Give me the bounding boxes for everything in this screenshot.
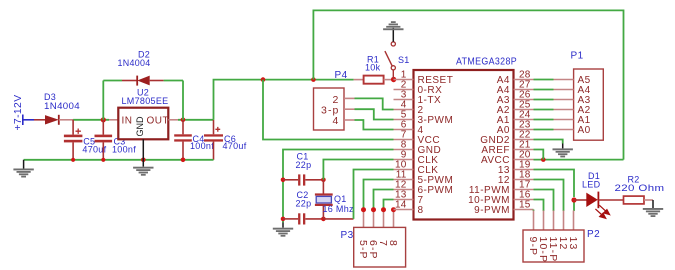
- svg-text:LM7805EE: LM7805EE: [122, 96, 169, 106]
- pin P2-1 stub: [533, 211, 535, 231]
- svg-text:LED: LED: [582, 180, 601, 190]
- label R2 220 Ohm: [615, 175, 665, 194]
- capacitor C3 100nf: [95, 120, 113, 160]
- pin P3-3 stub: [383, 210, 385, 228]
- pin P2-2 stub: [543, 211, 545, 231]
- junction XTAL1 node: [321, 178, 326, 183]
- svg-text:IN: IN: [122, 115, 133, 126]
- svg-text:P2: P2: [587, 229, 600, 240]
- pin P2-3 stub: [553, 211, 555, 231]
- svg-text:9-PWM: 9-PWM: [474, 205, 510, 216]
- label C5 470uf: [82, 136, 106, 154]
- pin P3-2 stub: [373, 210, 375, 228]
- pin P2-5 stub: [573, 211, 575, 231]
- ground GND2: [553, 144, 573, 158]
- svg-text:Q1: Q1: [334, 194, 347, 204]
- svg-text:470uf: 470uf: [223, 141, 247, 151]
- svg-text:100nf: 100nf: [112, 144, 136, 154]
- pin P2-4 stub: [563, 211, 565, 231]
- wire D13 below node: [573, 200, 575, 211]
- switch S1: [385, 42, 396, 79]
- wire A2 net: [534, 109, 554, 111]
- pin 6 D4 stub: [394, 120, 424, 136]
- crystal Q1 16 Mhz: [315, 180, 333, 219]
- svg-text:OUT: OUT: [147, 115, 170, 126]
- pin 17 11-PWM stub: [469, 180, 534, 196]
- connector P2: [523, 230, 584, 263]
- junction RESET node: [391, 77, 396, 82]
- svg-text:1N4004: 1N4004: [44, 101, 80, 111]
- svg-text:15: 15: [519, 200, 531, 211]
- wire Vin diode to regulator: [59, 119, 73, 121]
- label D3 1N4004: [44, 92, 80, 111]
- wire GND bottom rail: [24, 159, 214, 161]
- svg-text:10k: 10k: [365, 62, 381, 72]
- connector P4: [314, 88, 355, 130]
- label D2 1N4004: [118, 50, 151, 69]
- junction AREF-AVCC: [541, 157, 546, 162]
- label C2 22p: [296, 190, 312, 208]
- label C6 470uf: [223, 134, 247, 151]
- wire GND2: [534, 140, 563, 144]
- junction P3-3: [381, 207, 386, 212]
- wire pin 15 9-PWM to P2: [533, 210, 535, 212]
- svg-text:4: 4: [333, 115, 340, 127]
- node +7-12V supply terminal: [13, 95, 34, 131]
- pin 7 VCC stub: [394, 130, 441, 146]
- junction VCC-top bus branch: [311, 77, 316, 82]
- svg-text:100nf: 100nf: [190, 141, 214, 151]
- wire pin 16 10-PWM to P2: [534, 200, 544, 212]
- svg-text:A0: A0: [578, 125, 591, 136]
- wire P4-2 to pin 4: [355, 98, 394, 109]
- label D1 LED: [582, 171, 601, 190]
- pin 22 GND2 stub: [480, 130, 533, 146]
- wire P4-3p to pin 5: [355, 109, 394, 119]
- wire A5 net: [534, 79, 554, 81]
- wire XTAL2 to pin 10: [323, 218, 353, 220]
- svg-text:ATMEGA328P: ATMEGA328P: [456, 57, 517, 68]
- capacitor C1 22p: [283, 174, 323, 185]
- svg-text:13: 13: [567, 237, 579, 251]
- svg-text:P1: P1: [571, 51, 584, 62]
- pin 21 AREF stub: [481, 140, 533, 156]
- pin 25 A2 stub: [497, 100, 534, 116]
- capacitor C6 470uf: [204, 120, 223, 160]
- pin P3-1 stub: [363, 210, 365, 228]
- junction P3-1: [361, 207, 366, 212]
- wire VCC riser: [214, 80, 354, 120]
- ground C1 C2: [273, 223, 293, 237]
- svg-text:S1: S1: [398, 55, 410, 65]
- pin P3-4 stub: [393, 210, 395, 228]
- junction P3-4: [391, 207, 396, 212]
- svg-text:+7-12V: +7-12V: [13, 95, 24, 131]
- wire A0 net: [534, 129, 554, 131]
- svg-text:P3: P3: [341, 230, 354, 241]
- svg-text:220 Ohm: 220 Ohm: [615, 183, 665, 193]
- junction P3-2: [371, 207, 376, 212]
- capacitor C2 22p: [283, 213, 323, 224]
- pin 8 GND stub: [394, 140, 442, 156]
- connector P1: [554, 69, 604, 140]
- pin 14 D8 stub: [394, 200, 424, 216]
- junction GND-C4: [181, 158, 186, 163]
- wire U2 GND lead: [142, 139, 144, 166]
- svg-text:P4: P4: [335, 70, 348, 81]
- ground S1 top inverted: [383, 21, 403, 30]
- diode D3: [34, 115, 59, 125]
- pin 24 A1 stub: [497, 110, 534, 126]
- wire VCC to pin 7: [263, 80, 394, 140]
- pin 3 1-TX stub: [394, 90, 442, 106]
- pin 4 D2 stub: [394, 100, 424, 116]
- pin 13 D7 stub: [394, 190, 424, 206]
- pin 9 CLK stub: [394, 150, 439, 166]
- wire A4 net: [534, 89, 554, 91]
- wire Vout: [178, 119, 214, 121]
- pin 1 RESET stub: [394, 70, 454, 86]
- wire VCC top bus: [313, 10, 623, 159]
- junction GND-C5: [71, 158, 75, 162]
- pin 10 CLK stub: [394, 160, 439, 176]
- pin 15 9-PWM stub: [474, 200, 533, 216]
- resistor R2 220 Ohm: [624, 196, 654, 204]
- pin 20 AVCC stub: [481, 150, 534, 166]
- regulator U2 LM7805EE: [118, 108, 169, 140]
- pin 2 0-RX stub: [394, 80, 443, 96]
- svg-text:16 Mhz: 16 Mhz: [323, 204, 355, 214]
- pin 12 6-PWM stub: [394, 180, 454, 196]
- svg-text:14: 14: [395, 200, 407, 211]
- wire pin 19 D13 to LED node: [534, 170, 575, 198]
- junction GND-U2: [141, 158, 146, 163]
- junction GND-C1 left: [281, 178, 286, 183]
- wire pin 12 to P3: [374, 190, 394, 211]
- wire S1 to ground: [392, 28, 394, 42]
- svg-text:1N4004: 1N4004: [118, 58, 151, 68]
- label C4 100nf: [190, 134, 214, 151]
- pin 19 D13 stub: [498, 160, 534, 176]
- pin 5 3-PWM stub: [394, 110, 454, 126]
- label C1 22p: [296, 151, 312, 170]
- label C3 100nf: [112, 136, 136, 154]
- pin U2 OUT stub: [168, 119, 178, 121]
- wire XTAL1 to pin 9: [323, 160, 393, 180]
- wire pin 8 GND: [283, 150, 394, 223]
- capacitor C5 470uf: [64, 120, 83, 160]
- pin 18 D12 stub: [498, 170, 534, 186]
- wire P4-4 to pin 6: [355, 120, 394, 130]
- svg-text:GND: GND: [135, 116, 145, 137]
- pin 26 A3 stub: [497, 90, 534, 106]
- junction GND-C2 left: [281, 217, 286, 222]
- label Q1 16 Mhz: [323, 194, 355, 214]
- label U2 LM7805EE: [122, 88, 169, 107]
- resistor R1 10k: [364, 76, 394, 84]
- pin 16 10-PWM stub: [468, 190, 533, 206]
- label R1 10k: [365, 55, 381, 73]
- wire A1 net: [534, 119, 554, 121]
- connector P3: [354, 227, 406, 267]
- diode D2 bypass: [103, 76, 183, 120]
- wire AVCC: [534, 159, 624, 161]
- svg-text:8: 8: [418, 205, 424, 216]
- pin 11 5-PWM stub: [394, 170, 454, 186]
- wire A3 net: [534, 99, 554, 101]
- ground R2: [643, 200, 663, 217]
- diode D1 LED: [574, 192, 624, 219]
- wire pin 14 to P3: [393, 209, 395, 212]
- ground left: [13, 160, 33, 178]
- junction LED node: [571, 197, 576, 202]
- junction XTAL2 node: [321, 217, 326, 222]
- pin U2 IN stub: [109, 119, 118, 121]
- wire AREF: [534, 150, 544, 160]
- svg-text:22p: 22p: [296, 199, 312, 209]
- junction Vout-C4: [181, 118, 186, 123]
- junction GND-C3: [101, 158, 105, 162]
- capacitor C4 100nf: [174, 120, 192, 160]
- pin 23 A0 stub: [497, 120, 534, 136]
- svg-text:22p: 22p: [296, 160, 312, 170]
- wire pin 18 D12 to P2: [534, 180, 564, 212]
- junction VCC-pin7 branch: [261, 77, 266, 82]
- junction Vin-C3-D2: [101, 117, 106, 122]
- wire pin 11 to P3: [364, 180, 394, 211]
- svg-text:8: 8: [387, 240, 399, 247]
- pin 28 A4 stub: [497, 70, 534, 86]
- wire pin 13 to P3: [384, 200, 394, 211]
- IC U1 ATMEGA328P: [414, 70, 514, 220]
- pin 27 A4 stub: [497, 80, 534, 96]
- ground U2: [133, 167, 153, 176]
- wire pin 17 11-PWM to P2: [534, 190, 554, 212]
